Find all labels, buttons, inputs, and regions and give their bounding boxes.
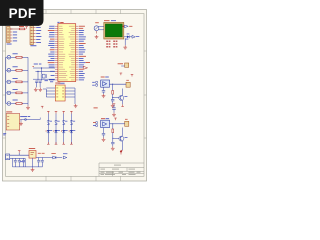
LED D2 <box>7 69 11 73</box>
diode D7 <box>53 156 56 159</box>
connector circle <box>25 119 27 121</box>
power flag above input <box>18 151 21 153</box>
ground below C10 <box>102 138 106 142</box>
wire D3 to R3 <box>6 81 7 83</box>
J3 designator <box>118 62 123 65</box>
U4 designator <box>101 76 105 79</box>
resistor R4 <box>16 92 22 94</box>
Q1 label <box>124 95 127 98</box>
label right of flag <box>129 25 132 28</box>
P1 wire to R17 <box>10 28 19 30</box>
LED D4 <box>7 91 11 95</box>
R4 value label <box>13 88 18 91</box>
VCC flag <box>63 156 67 159</box>
power flag bottom 3 <box>62 142 65 144</box>
P1 designator <box>7 24 12 27</box>
header U2 <box>55 85 65 101</box>
P2 pin stubs <box>33 28 35 43</box>
LED4 label <box>73 129 76 132</box>
ground below C2 <box>38 88 42 92</box>
diode LED3 <box>62 130 65 133</box>
optocoupler U5 <box>101 120 110 127</box>
wire input top <box>10 154 29 156</box>
capacitor x=42.3 <box>41 158 43 161</box>
wire XTAL2 <box>35 70 55 72</box>
wire up from U3 net <box>39 118 41 120</box>
LCD module LCD1 <box>104 22 124 39</box>
U4 input circles <box>95 81 97 83</box>
output flag on U1 right pin <box>83 66 87 69</box>
wire bend to U2 <box>43 88 46 90</box>
S1 label <box>49 120 52 123</box>
LED D1 <box>7 56 11 60</box>
LED3 label <box>65 129 68 132</box>
P2 designator <box>31 24 36 27</box>
R1 value label <box>13 52 18 55</box>
power flag bottom 1 <box>47 142 50 144</box>
wire input mid <box>10 157 26 159</box>
power port below Q2 <box>120 150 123 154</box>
D7 label <box>51 152 55 155</box>
U1 right pin names inside <box>69 25 75 28</box>
U3 net label <box>20 115 27 118</box>
capacitor C9 <box>111 141 114 143</box>
ground below C1 <box>34 88 38 92</box>
wire U4 output <box>110 83 127 85</box>
U5 input circles <box>95 121 97 123</box>
net label below P1 <box>7 43 12 46</box>
U1 designator <box>57 21 59 24</box>
net flag right of LCD <box>123 26 124 27</box>
regulator U6 <box>29 151 36 159</box>
PDF badge <box>0 0 44 26</box>
resistor R2 <box>16 69 22 71</box>
U3 designator <box>6 111 12 114</box>
RP1 pins <box>96 31 98 34</box>
capacitor x=23.6 <box>23 158 25 160</box>
svg-text:PDF: PDF <box>9 6 37 21</box>
IC U3 <box>6 114 20 131</box>
ground below C6 <box>102 94 106 98</box>
junction dots <box>41 67 42 68</box>
power flag bottom 2 <box>55 142 58 144</box>
MCU U1 <box>58 24 76 82</box>
wire D1 to R1 <box>6 56 7 58</box>
labels above output caps <box>38 152 41 155</box>
red mark left <box>33 65 34 68</box>
power flag right <box>131 74 134 76</box>
title block <box>99 163 144 176</box>
D6 labels <box>127 33 130 36</box>
net label left of block A <box>86 61 91 64</box>
P2 pin numbers <box>31 26 33 29</box>
U2 right wires <box>65 88 75 97</box>
potentiometer RP1 <box>94 26 99 31</box>
diode LED2 <box>55 130 58 133</box>
wire branch 4 <box>70 114 72 145</box>
S2 label <box>57 120 60 123</box>
net label above block B <box>94 107 98 110</box>
R2 value label <box>13 65 18 68</box>
capacitor C7 <box>111 99 114 101</box>
wire R1 to bus <box>23 56 28 58</box>
Y1 vertical wires <box>41 68 43 74</box>
right wire bus <box>27 57 29 105</box>
net labels above cluster <box>34 63 38 66</box>
ground below LED bus <box>26 106 30 110</box>
U1 right net labels <box>79 25 85 28</box>
R5 value label <box>13 99 18 102</box>
wire right of LCD pins <box>124 38 126 45</box>
wire R5 to bus <box>23 103 28 105</box>
RP1 designator <box>95 21 99 24</box>
wire below Q2 <box>122 141 124 150</box>
capacitor C6 below U4 <box>103 87 105 90</box>
ground below C8 <box>112 113 116 117</box>
power flag above junction <box>114 118 117 120</box>
connector J5 <box>125 121 129 126</box>
VCC label <box>63 152 67 155</box>
power flag branch 1 <box>47 111 50 113</box>
optocoupler U4 <box>101 80 110 87</box>
ground below C7 <box>111 104 115 108</box>
resistor R1 <box>16 56 22 58</box>
resistor R17 <box>20 28 25 30</box>
switch S1 <box>47 121 50 125</box>
flag at left border <box>3 132 6 135</box>
power flag branch 2 <box>55 111 58 113</box>
U5 designator <box>101 117 105 120</box>
U2 designator <box>55 82 60 85</box>
U2 pin numbers <box>56 87 58 90</box>
wire R4 to bus <box>23 92 28 94</box>
wire below Q1 <box>122 101 124 105</box>
wire above Q2 <box>122 128 124 136</box>
crystal Y1 <box>42 74 45 78</box>
sheet background <box>3 10 147 182</box>
capacitor C1 <box>36 80 38 82</box>
wires RP1 to LCD <box>98 26 103 28</box>
backlight diode D6 <box>124 36 127 38</box>
capacitor x=38.7 <box>38 158 40 161</box>
power flag near J3 <box>120 73 123 75</box>
LED1 label <box>49 129 52 132</box>
wire R2 to bus <box>23 69 28 71</box>
wire D4 to R4 <box>6 92 7 94</box>
U1 left pin stubs <box>55 26 58 80</box>
ground right of LCD <box>123 45 127 49</box>
LED D3 <box>7 80 11 84</box>
J3 wire stub <box>121 65 124 67</box>
U5 input labels <box>93 121 96 124</box>
ground below U6 <box>32 158 34 168</box>
capacitor C8 <box>113 104 116 106</box>
power flag branch 3 <box>62 111 65 113</box>
wire branch 2 <box>55 114 57 145</box>
connector J3 <box>125 63 129 67</box>
P1 net labels <box>13 31 17 34</box>
ground near U3 <box>20 120 22 122</box>
connector P2 <box>30 26 33 45</box>
connector J4 <box>126 82 130 87</box>
wire bus down from U2 <box>74 88 76 104</box>
net flag after D6 <box>132 35 135 38</box>
inner frame <box>6 14 145 177</box>
resistor R5 <box>16 103 22 105</box>
LCD pin marks left group <box>106 41 108 42</box>
S4 label <box>73 120 76 123</box>
power connector J6 <box>6 154 10 160</box>
title block text <box>114 164 121 167</box>
wire RST <box>33 78 55 80</box>
U1 right pin stubs <box>76 26 79 80</box>
net label below U1 <box>45 79 48 82</box>
U2 left wires <box>46 88 55 97</box>
junction <box>112 94 114 99</box>
wire U5 output <box>110 123 125 125</box>
wire above Q1 <box>122 89 124 96</box>
U3 right pin stub <box>20 119 21 121</box>
ground below C9 <box>111 146 115 150</box>
LED D5 <box>7 102 11 106</box>
J4 designator <box>126 79 129 82</box>
capacitor x=19.3 <box>18 158 20 160</box>
wire D5 to R5 <box>6 103 7 105</box>
switch S3 <box>62 121 65 125</box>
power flag branch 4 <box>70 111 73 113</box>
P1 pin stubs <box>10 29 12 41</box>
LCD designator <box>104 19 110 22</box>
P1 pin numbers <box>7 28 9 31</box>
net labels below U1 <box>50 80 53 83</box>
switch S4 <box>70 121 73 125</box>
wire R3 to bus <box>23 81 28 83</box>
cap value label <box>20 160 25 163</box>
diode LED1 <box>47 130 50 133</box>
resistor R10 <box>112 84 114 90</box>
transistor Q2 <box>113 137 120 139</box>
U1 left net labels <box>49 25 54 28</box>
Q2 label <box>125 136 128 139</box>
ground below U2 <box>74 104 78 108</box>
wire bottom rail <box>13 166 43 168</box>
junction 2 <box>112 133 114 143</box>
transistor Q1 <box>113 97 120 99</box>
U4 input labels <box>92 81 95 84</box>
U1 left pin names inside <box>59 25 63 28</box>
resistor R11 <box>112 124 114 129</box>
ground below RP1 <box>95 35 99 39</box>
LED2 label <box>57 129 60 132</box>
wire from U3 <box>21 119 40 121</box>
J5 designator <box>125 118 128 121</box>
LCD pin marks right group <box>113 41 115 42</box>
left wire bus <box>5 57 7 103</box>
P2 net labels <box>36 26 41 29</box>
power pin flag <box>25 27 28 29</box>
wire branch 1 <box>47 114 49 145</box>
U3 pin marks <box>7 115 9 117</box>
frame zone ticks <box>3 10 147 182</box>
switch S2 <box>55 121 58 125</box>
power flag below Q1 <box>121 104 124 106</box>
power flag right of U3 <box>41 106 44 108</box>
connector P1 <box>7 27 11 43</box>
S3 label <box>65 120 68 123</box>
U6 designator <box>29 147 35 150</box>
diode LED4 <box>70 130 73 133</box>
power flag bottom 4 <box>70 142 73 144</box>
wire XTAL1 <box>33 67 55 69</box>
capacitor C2 <box>39 80 41 82</box>
net label below P2 <box>30 44 36 47</box>
R17 value label <box>19 25 24 28</box>
wire output <box>36 157 53 159</box>
resistor R3 <box>16 81 22 83</box>
wire branch 3 <box>63 114 65 145</box>
capacitor x=15.3 <box>14 158 16 160</box>
R3 value label <box>13 77 18 80</box>
capacitor C10 below U5 <box>103 128 105 134</box>
wire D2 to R2 <box>6 69 7 71</box>
LCD screen <box>105 24 122 37</box>
